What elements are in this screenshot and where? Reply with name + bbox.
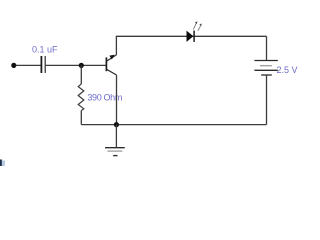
transistor Q1 — [106, 55, 116, 75]
node input terminal — [11, 63, 16, 68]
corner artifact — [0, 160, 5, 167]
wire battery top lead — [266, 36, 268, 60]
wire resistor bottom lead — [80, 111, 82, 125]
svg-text:0.1 uF: 0.1 uF — [32, 44, 58, 54]
wire collector down lead — [116, 75, 118, 125]
wire ground stem — [115, 125, 117, 148]
node junction base/resistor — [79, 63, 84, 68]
battery B1 2.5 V — [254, 61, 277, 76]
wire resistor top lead — [80, 65, 82, 84]
LED D1 — [187, 21, 202, 42]
wire battery bottom lead — [266, 75, 268, 125]
wire top rail — [116, 35, 267, 37]
node junction ground — [114, 122, 119, 127]
resistor R1 390 Ohm — [78, 84, 84, 111]
ground — [105, 148, 125, 156]
wire input to capacitor — [16, 64, 41, 66]
wire bottom rail — [81, 124, 266, 126]
wire capacitor to transistor base — [46, 64, 107, 66]
svg-text:2.5 V: 2.5 V — [277, 65, 298, 75]
wire emitter up lead — [115, 36, 117, 55]
capacitor C1 0.1 uF — [41, 56, 45, 73]
